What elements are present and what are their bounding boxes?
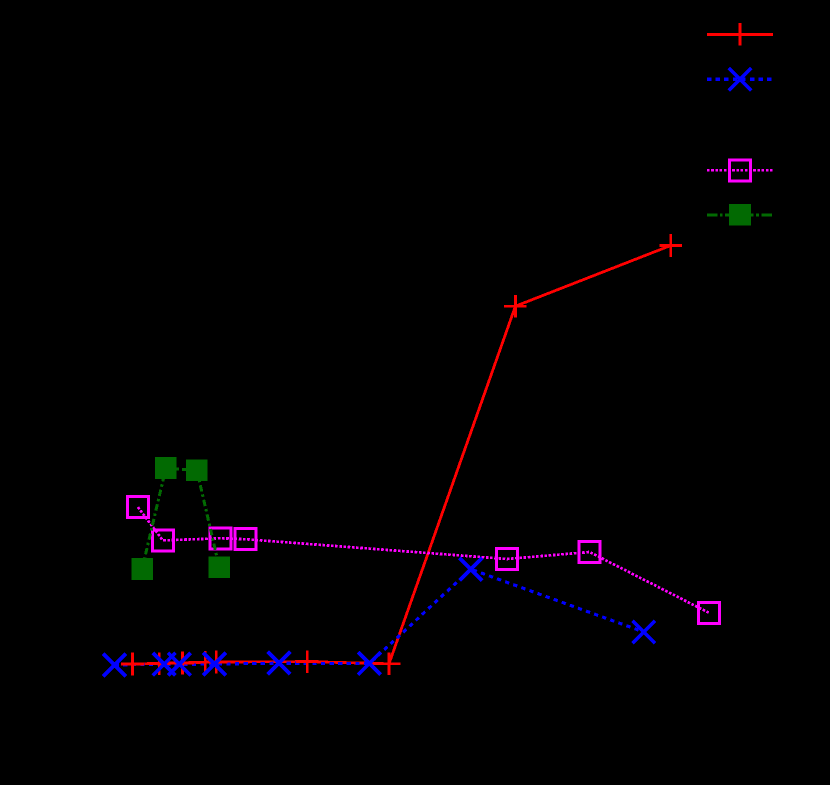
blue X marker 6 [358,652,381,675]
blue X marker 5 [268,652,291,675]
green filled-square marker 2 [155,457,177,479]
blue X marker 1 [103,654,126,677]
blue X markers [103,558,655,676]
blue X marker 4 [203,653,226,676]
magenta open-square marker 3 [210,528,231,549]
magenta open-square marker 5 [497,549,518,570]
red plus marker 1 [121,653,144,676]
magenta open-square markers [127,497,719,624]
legend entry 1: red solid line with plus [707,23,773,46]
legend entry 3: magenta dotted line with open square [707,160,773,181]
magenta series line (dotted) [138,507,709,613]
red plus marker 9 [659,234,682,257]
legend entry 4: green dash-dot line with filled square [707,204,773,226]
red plus marker 5 [205,651,228,674]
blue X marker 3 [168,653,191,676]
red plus marker 8 [504,295,527,318]
red plus marker 3 [171,652,194,675]
green filled-square marker 3 [186,460,208,482]
magenta open-square marker 2 [152,530,173,551]
red series line (solid) [133,246,671,665]
green filled-square markers [131,457,230,580]
red plus marker 7 [378,653,401,676]
blue X marker 7 [460,558,483,581]
magenta open-square marker 7 [699,602,720,623]
blue X marker 8 [633,621,656,644]
red plus markers [121,234,682,675]
legend entry 2: blue dashed line with X [707,68,773,91]
red plus marker 6 [296,650,319,673]
green filled-square marker 4 [209,557,231,579]
red plus marker 4 [194,651,217,674]
magenta open-square marker 6 [579,542,600,563]
green series line (dash-dot) [142,468,219,569]
blue X marker 2 [153,653,176,676]
magenta open-square marker 4 [235,529,256,550]
magenta open-square marker 1 [127,497,148,518]
green filled-square marker 1 [131,558,153,580]
red plus marker 2 [148,652,171,675]
blue series line (dashed) [115,569,644,665]
